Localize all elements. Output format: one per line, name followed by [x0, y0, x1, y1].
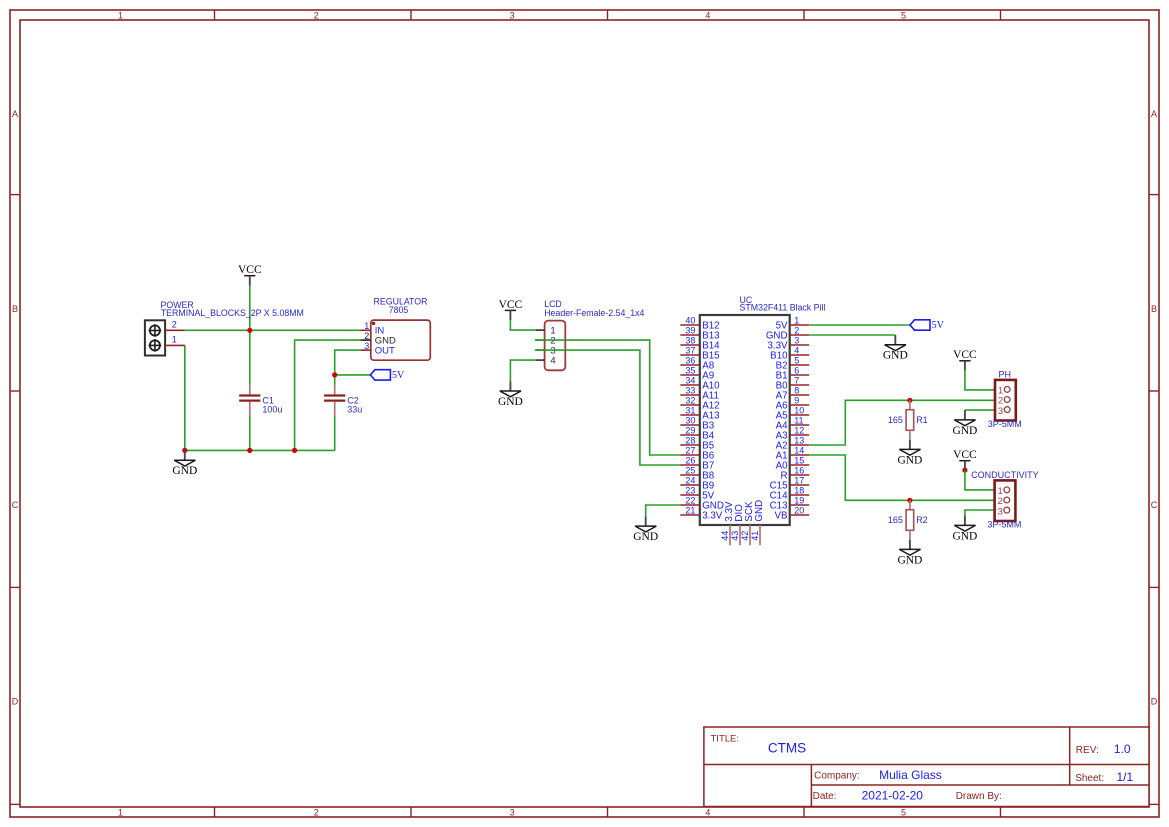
wire LCD pin2 to UC pin27 — [535, 340, 681, 455]
UC pin 13 A2 — [790, 444, 810, 446]
UC pin 5 B2 — [790, 364, 810, 366]
wire VCC to CONDUCTIVITY pin1 — [965, 470, 999, 490]
UC pin 1 5V — [790, 324, 810, 326]
ruler tick left — [10, 390, 20, 392]
svg-text:3: 3 — [510, 10, 515, 20]
wire UC pin2 to GND — [809, 334, 895, 336]
svg-text:35: 35 — [685, 366, 695, 376]
title block — [704, 727, 1149, 807]
svg-text:VCC: VCC — [953, 349, 977, 361]
ruler tick right — [1149, 803, 1159, 805]
svg-text:26: 26 — [685, 456, 695, 466]
ruler tick left — [10, 586, 20, 588]
svg-text:GND: GND — [633, 531, 658, 543]
connector POWER TERMINAL_BLOCKS_2P — [145, 320, 165, 355]
junction rail left — [182, 448, 187, 453]
UC pin 39 B13 — [680, 334, 700, 336]
wire regulator GND pin2 to rail — [295, 340, 361, 450]
svg-text:5V: 5V — [932, 320, 945, 331]
svg-text:29: 29 — [685, 426, 695, 436]
svg-text:34: 34 — [685, 376, 695, 386]
svg-text:10: 10 — [794, 406, 804, 416]
svg-text:Company:: Company: — [814, 771, 860, 782]
svg-text:GND: GND — [897, 554, 922, 566]
svg-text:2: 2 — [314, 807, 319, 817]
UC pin 2 GND — [790, 334, 810, 336]
ruler tick left — [10, 194, 20, 196]
svg-text:15: 15 — [794, 456, 804, 466]
UC pin 25 B8 — [680, 474, 700, 476]
ruler tick top — [607, 10, 609, 20]
UC pin 6 B1 — [790, 374, 810, 376]
UC pin 43 DIO (bottom) — [739, 525, 741, 545]
UC pin 17 C15 — [790, 484, 810, 486]
ruler tick bottom — [607, 807, 609, 817]
svg-text:OUT: OUT — [375, 345, 395, 356]
UC pin 40 B12 — [680, 324, 700, 326]
svg-text:2: 2 — [314, 10, 319, 20]
junction rail C1 — [247, 448, 252, 453]
svg-text:43: 43 — [730, 531, 740, 541]
svg-text:3: 3 — [998, 506, 1003, 517]
UC pin 9 A6 — [790, 404, 810, 406]
svg-text:3: 3 — [998, 406, 1003, 417]
junction rail regulator GND — [292, 448, 297, 453]
ruler tick top — [1000, 10, 1002, 20]
ruler tick right — [1149, 586, 1159, 588]
power ground symbol — [172, 450, 197, 477]
regulator pin 3 OUT — [361, 349, 371, 351]
CONDUCTIVITY VCC symbol — [953, 449, 977, 470]
svg-text:PH: PH — [999, 369, 1012, 379]
svg-text:Header-Female-2.54_1x4: Header-Female-2.54_1x4 — [544, 308, 644, 318]
header LCD body — [545, 321, 566, 371]
LCD pin 2 — [536, 339, 545, 341]
svg-text:20: 20 — [794, 506, 804, 516]
LCD ground symbol — [498, 381, 523, 408]
svg-text:1: 1 — [172, 335, 177, 345]
svg-text:25: 25 — [685, 466, 695, 476]
ruler tick right — [1149, 390, 1159, 392]
svg-text:30: 30 — [685, 416, 695, 426]
UC pin 11 A4 — [790, 424, 810, 426]
svg-text:41: 41 — [750, 531, 760, 541]
svg-text:165: 165 — [888, 515, 903, 525]
svg-text:1: 1 — [118, 10, 123, 20]
svg-text:5: 5 — [901, 10, 906, 20]
UC pin 30 B3 — [680, 424, 700, 426]
net flag 5V (regulator out) — [370, 370, 405, 381]
ruler tick bottom — [1000, 807, 1002, 817]
op IC UC STM32F411 Black Pill body — [700, 315, 790, 525]
svg-text:R1: R1 — [916, 415, 928, 425]
junction CONDUCTIVITY VCC — [962, 468, 967, 473]
connector PH 3P-5MM — [995, 380, 1016, 421]
svg-text:2: 2 — [794, 326, 799, 336]
UC pin 22 GND — [680, 504, 700, 506]
svg-text:1.0: 1.0 — [1114, 742, 1131, 756]
UC pin 38 B14 — [680, 344, 700, 346]
CONDUCTIVITY ground symbol — [952, 516, 977, 543]
capacitor C1 100u — [239, 385, 282, 415]
wire VCC to LCD pin1 — [510, 320, 535, 330]
ruler tick top — [803, 10, 805, 20]
UC pin 44 3.3V (bottom) — [729, 525, 731, 545]
svg-text:4: 4 — [705, 807, 710, 817]
UC pin 28 B5 — [680, 444, 700, 446]
svg-text:2021-02-20: 2021-02-20 — [862, 788, 924, 802]
svg-text:28: 28 — [685, 436, 695, 446]
svg-text:1: 1 — [794, 316, 799, 326]
regulator pin 2 GND — [361, 339, 371, 341]
svg-text:7: 7 — [794, 376, 799, 386]
LCD VCC symbol — [499, 299, 523, 320]
svg-text:4: 4 — [794, 346, 799, 356]
UC pin22 ground symbol — [633, 516, 658, 543]
svg-text:D: D — [1151, 697, 1158, 707]
wire UC pin14 (A1) to CONDUCTIVITY pin2 — [809, 455, 999, 500]
svg-text:B: B — [1151, 304, 1157, 314]
wire UC pin13 (A2) to PH pin2 — [809, 400, 999, 445]
svg-text:27: 27 — [685, 446, 695, 456]
LCD pin 1 — [536, 329, 545, 331]
wire regulator OUT pin3 to C2 — [335, 350, 361, 385]
ruler tick left — [10, 803, 20, 805]
svg-text:Mulia Glass: Mulia Glass — [879, 768, 942, 782]
svg-text:19: 19 — [794, 496, 804, 506]
svg-text:3.3V: 3.3V — [702, 510, 723, 521]
svg-text:4: 4 — [705, 10, 710, 20]
UC pin 16 R — [790, 474, 810, 476]
svg-text:4: 4 — [550, 356, 555, 367]
svg-text:A: A — [1151, 109, 1157, 119]
svg-text:42: 42 — [740, 531, 750, 541]
svg-text:9: 9 — [794, 396, 799, 406]
svg-text:R2: R2 — [916, 515, 928, 525]
svg-text:39: 39 — [685, 326, 695, 336]
svg-text:Sheet:: Sheet: — [1075, 773, 1104, 784]
R1 ground symbol — [897, 440, 922, 467]
UC pin 35 A9 — [680, 374, 700, 376]
svg-text:37: 37 — [685, 346, 695, 356]
UC pin 33 A11 — [680, 394, 700, 396]
svg-text:3P-5MM: 3P-5MM — [987, 520, 1021, 530]
svg-text:13: 13 — [794, 436, 804, 446]
wire GND rail — [185, 449, 335, 451]
UC pin 23 5V — [680, 494, 700, 496]
svg-text:GND: GND — [952, 530, 977, 542]
junction R1 net — [907, 398, 912, 403]
svg-text:GND: GND — [952, 425, 977, 437]
UC pin 41 GND (bottom) — [759, 525, 761, 545]
svg-text:23: 23 — [685, 486, 695, 496]
svg-text:REV:: REV: — [1076, 745, 1099, 756]
UC pin 3 3.3V — [790, 344, 810, 346]
svg-text:2: 2 — [172, 320, 177, 330]
svg-text:22: 22 — [685, 496, 695, 506]
svg-text:11: 11 — [794, 416, 803, 426]
ruler tick top — [214, 10, 216, 20]
svg-text:VB: VB — [775, 510, 789, 521]
svg-text:Drawn By:: Drawn By: — [956, 791, 1002, 802]
PH VCC symbol — [953, 349, 977, 370]
svg-text:A: A — [12, 109, 18, 119]
UC pin 10 A5 — [790, 414, 810, 416]
junction R2 net — [907, 498, 912, 503]
ruler tick bottom — [410, 807, 412, 817]
svg-text:1: 1 — [118, 807, 123, 817]
UC pin 32 A12 — [680, 404, 700, 406]
svg-text:3P-5MM: 3P-5MM — [988, 419, 1022, 429]
svg-text:CTMS: CTMS — [768, 740, 806, 755]
svg-text:36: 36 — [685, 356, 695, 366]
regulator pin 1 IN — [361, 329, 371, 331]
svg-text:D: D — [12, 697, 19, 707]
svg-text:31: 31 — [685, 406, 695, 416]
svg-text:100u: 100u — [262, 405, 282, 415]
svg-text:Date:: Date: — [813, 791, 837, 802]
svg-text:VCC: VCC — [953, 449, 977, 461]
svg-text:CONDUCTIVITY: CONDUCTIVITY — [971, 470, 1039, 480]
regulator U 7805 body — [371, 320, 431, 360]
svg-text:GND: GND — [498, 396, 523, 408]
svg-text:44: 44 — [720, 531, 730, 541]
svg-text:33: 33 — [685, 386, 695, 396]
svg-text:8: 8 — [794, 386, 799, 396]
svg-text:21: 21 — [685, 506, 695, 516]
svg-text:16: 16 — [794, 466, 804, 476]
svg-text:24: 24 — [685, 476, 695, 486]
LCD pin 3 — [536, 349, 545, 351]
UC pin 19 C13 — [790, 504, 810, 506]
svg-text:32: 32 — [685, 396, 695, 406]
resistor R2 165 — [888, 500, 928, 539]
UC pin 27 B6 — [680, 454, 700, 456]
svg-text:TITLE:: TITLE: — [711, 734, 740, 745]
svg-text:1: 1 — [364, 321, 369, 331]
R2 ground symbol — [897, 540, 922, 567]
svg-text:6: 6 — [794, 366, 799, 376]
svg-text:1/1: 1/1 — [1117, 770, 1134, 784]
wire UC pin1 to 5V flag — [809, 324, 910, 326]
svg-text:3: 3 — [364, 341, 369, 351]
terminal pin 2 — [165, 329, 185, 331]
UC pin 36 A8 — [680, 364, 700, 366]
UC pin 24 B9 — [680, 484, 700, 486]
ruler tick top — [410, 10, 412, 20]
wire VCC to terminal/regulator net (horizontal) — [185, 329, 361, 331]
UC pin 15 A0 — [790, 464, 810, 466]
junction 5V net — [332, 372, 337, 377]
UC pin 37 B15 — [680, 354, 700, 356]
wire VCC vertical down through C1 to GND rail — [249, 285, 251, 385]
wire LCD pin3 to UC pin26 — [535, 350, 681, 465]
PH ground symbol — [952, 410, 977, 437]
power VCC symbol — [238, 264, 262, 285]
svg-text:2: 2 — [364, 331, 369, 341]
svg-text:5: 5 — [901, 807, 906, 817]
svg-text:5V: 5V — [392, 370, 405, 381]
svg-text:GND: GND — [897, 454, 922, 466]
UC pin 34 A10 — [680, 384, 700, 386]
UC pin 14 A1 — [790, 454, 810, 456]
wire to 5V flag — [335, 374, 371, 376]
ruler tick bottom — [803, 807, 805, 817]
svg-text:GND: GND — [172, 465, 197, 477]
wire VCC to PH pin1 — [965, 370, 999, 390]
svg-text:165: 165 — [888, 415, 903, 425]
svg-text:GND: GND — [883, 350, 908, 362]
wire PH pin3 to GND — [965, 409, 999, 411]
net flag 5V (UC pin1) — [910, 320, 945, 331]
svg-text:7805: 7805 — [389, 305, 409, 315]
UC pin 18 C14 — [790, 494, 810, 496]
UC pin 31 A13 — [680, 414, 700, 416]
UC pin 42 SCK (bottom) — [749, 525, 751, 545]
svg-text:38: 38 — [685, 336, 695, 346]
LCD pin 4 — [536, 359, 545, 361]
capacitor C2 33u — [324, 385, 362, 415]
connector CONDUCTIVITY 3P-5MM — [995, 480, 1016, 521]
UC pin 8 A7 — [790, 394, 810, 396]
svg-text:3: 3 — [510, 807, 515, 817]
svg-text:GND: GND — [754, 500, 765, 522]
wire terminal pin1 down to rail — [184, 345, 186, 450]
svg-text:TERMINAL_BLOCKS_2P X 5.08MM: TERMINAL_BLOCKS_2P X 5.08MM — [161, 308, 304, 318]
svg-text:STM32F411 Black Pill: STM32F411 Black Pill — [740, 302, 826, 312]
svg-text:12: 12 — [794, 426, 804, 436]
svg-text:5: 5 — [794, 356, 799, 366]
wire LCD pin4 to GND — [510, 360, 535, 381]
UC pin 29 B4 — [680, 434, 700, 436]
svg-text:33u: 33u — [347, 405, 362, 415]
UC pin 20 VB — [790, 514, 810, 516]
svg-text:18: 18 — [794, 486, 804, 496]
UC pin 12 A3 — [790, 434, 810, 436]
svg-text:3: 3 — [794, 336, 799, 346]
svg-text:VCC: VCC — [499, 299, 523, 311]
junction VCC net — [247, 328, 252, 333]
svg-text:C: C — [12, 500, 19, 510]
svg-text:VCC: VCC — [238, 264, 262, 276]
svg-text:B: B — [12, 304, 18, 314]
UC pin2 ground symbol — [883, 335, 908, 362]
terminal pin 1 — [165, 344, 185, 346]
svg-text:14: 14 — [794, 446, 804, 456]
wire CONDUCTIVITY pin3 to GND — [965, 510, 999, 516]
svg-text:40: 40 — [685, 316, 695, 326]
ruler tick bottom — [214, 807, 216, 817]
resistor R1 165 — [888, 400, 928, 439]
UC pin 26 B7 — [680, 464, 700, 466]
svg-text:17: 17 — [794, 476, 804, 486]
ruler tick right — [1149, 194, 1159, 196]
UC pin 4 B10 — [790, 354, 810, 356]
UC pin 7 B0 — [790, 384, 810, 386]
UC pin 21 3.3V — [680, 514, 700, 516]
wire UC pin22 to GND — [646, 505, 681, 516]
svg-text:C: C — [1151, 500, 1158, 510]
